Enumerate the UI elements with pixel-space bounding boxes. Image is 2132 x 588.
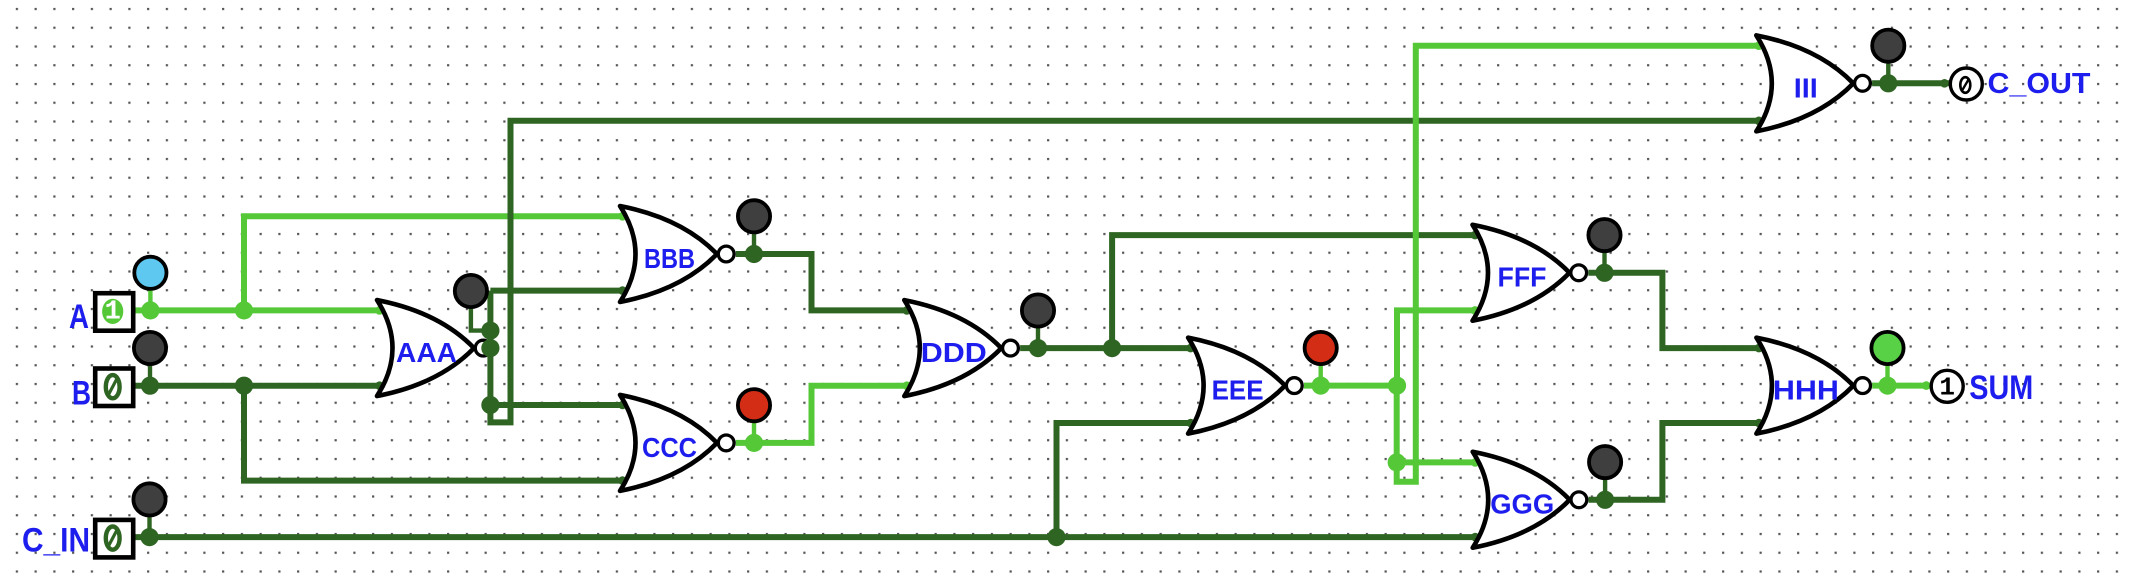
pin AAA input 1 bbox=[375, 306, 384, 315]
pin III input 1 bbox=[1755, 41, 1764, 50]
NOR gate AAA bbox=[377, 300, 474, 396]
NOR gate GGG bbox=[1473, 452, 1570, 548]
lamp BBB bbox=[738, 200, 770, 232]
pin DDD input 1 bbox=[903, 306, 912, 315]
node A branch junction bbox=[235, 301, 253, 319]
wire: A riser to BBB top input bbox=[244, 216, 626, 310]
pin BBB input 1 bbox=[618, 212, 627, 221]
node FFF output junction bbox=[1595, 264, 1613, 282]
wire: B lamp stub bbox=[148, 348, 152, 386]
NOR gate III bbox=[1756, 35, 1853, 131]
node BBB output junction bbox=[745, 245, 763, 263]
node EEE branch junction bbox=[1388, 377, 1406, 395]
wire: EEE output run bbox=[1304, 383, 1397, 389]
gate HHH output bubble bbox=[1855, 378, 1871, 394]
node III output junction bbox=[1879, 74, 1897, 92]
wire: AAA out to CCC top input bbox=[490, 402, 626, 408]
output node SUM circle bbox=[1931, 370, 1963, 402]
wire: AAA out to BBB bottom input bbox=[490, 288, 626, 294]
node EEE-GGG junction bbox=[1388, 453, 1406, 471]
wire: BBB lamp stub bbox=[752, 216, 756, 254]
svg-text:C_OUT: C_OUT bbox=[1988, 68, 2091, 100]
pin EEE input 2 bbox=[1186, 419, 1195, 428]
wire: III output to C_OUT node bbox=[1872, 80, 1949, 86]
output node C_OUT circle bbox=[1950, 68, 1982, 100]
pin HHH input 1 bbox=[1755, 344, 1764, 353]
gate GGG output bubble bbox=[1571, 492, 1587, 508]
svg-text:GGG: GGG bbox=[1490, 489, 1554, 520]
svg-text:SUM: SUM bbox=[1969, 369, 2033, 407]
NOR gate EEE bbox=[1188, 338, 1285, 434]
lamp AAA bbox=[455, 275, 487, 307]
pin EEE input 1 bbox=[1186, 344, 1195, 353]
pin GGG input 1 bbox=[1471, 458, 1480, 467]
svg-text:A: A bbox=[69, 298, 89, 336]
node DDD output junction bbox=[1029, 339, 1047, 357]
gate III output bubble bbox=[1855, 75, 1871, 91]
lamp on input B bbox=[134, 332, 166, 364]
wire: AAA output vertical bus bbox=[490, 121, 1762, 423]
lamp DDD bbox=[1022, 294, 1054, 326]
lamp HHH bbox=[1871, 332, 1903, 364]
lamp CCC bbox=[738, 389, 770, 421]
value badge 1 bbox=[102, 299, 123, 324]
wire: EEE out to GGG top input bbox=[1397, 459, 1479, 465]
wire: FFF output to HHH top input bbox=[1588, 273, 1762, 348]
pin A box output bbox=[128, 306, 137, 315]
node B pin junction bbox=[141, 377, 159, 395]
wire: HHH lamp stub bbox=[1885, 348, 1889, 386]
svg-text:1: 1 bbox=[1939, 372, 1955, 402]
input box C_IN bbox=[95, 520, 133, 558]
node AAA output junction bbox=[481, 339, 499, 357]
wire: CCC output to DDD bottom input bbox=[736, 386, 911, 443]
NOR gate CCC bbox=[620, 395, 717, 491]
pin HHH input 2 bbox=[1755, 419, 1764, 428]
wire: input B row bbox=[131, 383, 383, 389]
pin AAA input 2 bbox=[375, 381, 384, 390]
value badge 0 (slashed zero) bbox=[106, 375, 120, 398]
NOR gate HHH bbox=[1756, 338, 1853, 434]
NOR gate FFF bbox=[1473, 225, 1570, 321]
gate BBB output bubble bbox=[718, 246, 734, 262]
input box A bbox=[95, 293, 133, 331]
wire: CCC lamp stub bbox=[752, 405, 756, 443]
wire: HHH output to SUM node bbox=[1872, 383, 1930, 389]
lamp EEE bbox=[1305, 332, 1337, 364]
wire: EEE out down-bus to GGG and III bbox=[1397, 46, 1763, 482]
wire: GGG lamp stub bbox=[1603, 462, 1607, 500]
gate AAA output bubble bbox=[475, 340, 491, 356]
node DDD branch junction bbox=[1103, 339, 1121, 357]
gate FFF output bubble bbox=[1571, 265, 1587, 281]
node AAA lamp junction bbox=[481, 322, 499, 340]
lamp GGG bbox=[1589, 446, 1621, 478]
lamp FFF bbox=[1588, 219, 1620, 251]
node C_IN branch junction bbox=[1047, 528, 1065, 546]
svg-text:DDD: DDD bbox=[921, 337, 987, 368]
lamp on input A bbox=[134, 257, 166, 289]
pin III input 2 bbox=[1755, 117, 1764, 126]
svg-text:III: III bbox=[1794, 72, 1818, 103]
wire: GGG output to HHH bottom input bbox=[1589, 423, 1763, 500]
lamp III bbox=[1872, 30, 1904, 62]
pin DDD input 2 bbox=[903, 381, 912, 390]
wire: input A row bbox=[131, 307, 383, 313]
node CCC output junction bbox=[745, 434, 763, 452]
node GGG output junction bbox=[1596, 491, 1614, 509]
wire: III lamp stub bbox=[1886, 46, 1890, 84]
svg-text:FFF: FFF bbox=[1498, 262, 1547, 293]
C_OUT value 0 (slashed zero) bbox=[1960, 77, 1970, 93]
node AAA-CCC junction bbox=[481, 396, 499, 414]
wire: EEE out riser to FFF bottom input bbox=[1397, 310, 1479, 385]
node A pin junction bbox=[141, 301, 159, 319]
node EEE output junction bbox=[1312, 377, 1330, 395]
wire: C_IN riser to EEE bottom input bbox=[1057, 423, 1195, 537]
wire: BBB output to DDD top input bbox=[736, 254, 911, 310]
pin C_OUT node bbox=[1940, 79, 1949, 88]
value badge 0 (slashed zero) bbox=[106, 527, 120, 550]
NOR gate BBB bbox=[620, 206, 717, 302]
pin FFF input 2 bbox=[1471, 306, 1480, 315]
wire: AAA lamp stub bbox=[471, 293, 491, 331]
gate EEE output bubble bbox=[1286, 378, 1302, 394]
svg-text:HHH: HHH bbox=[1773, 375, 1839, 406]
wire: EEE lamp stub bbox=[1318, 348, 1322, 386]
svg-text:AAA: AAA bbox=[396, 337, 457, 368]
wire: DDD riser to FFF top input bbox=[1112, 235, 1478, 348]
node HHH output junction bbox=[1878, 377, 1896, 395]
svg-text:CCC: CCC bbox=[642, 432, 697, 463]
wire: C_IN lamp stub bbox=[147, 499, 151, 537]
pin B box output bbox=[128, 381, 137, 390]
svg-text:BBB: BBB bbox=[644, 243, 695, 274]
pin GGG input 2 bbox=[1471, 533, 1480, 542]
lamp on input C_IN bbox=[133, 483, 165, 515]
svg-text:1: 1 bbox=[105, 297, 121, 327]
input box B bbox=[95, 369, 133, 407]
pin CCC input 2 bbox=[618, 476, 627, 485]
wire: C_IN row to GGG bottom input bbox=[131, 534, 1479, 540]
wire: FFF lamp stub bbox=[1602, 235, 1606, 273]
svg-text:B: B bbox=[72, 374, 91, 412]
svg-text:C_IN: C_IN bbox=[22, 522, 90, 560]
node C_IN pin junction bbox=[140, 528, 158, 546]
pin SUM node bbox=[1922, 381, 1931, 390]
wire: DDD lamp stub bbox=[1036, 311, 1040, 349]
NOR gate DDD bbox=[904, 300, 1001, 396]
wire: DDD output to EEE top input bbox=[1020, 345, 1194, 351]
wire: B riser to CCC bottom input bbox=[244, 386, 626, 481]
svg-text:EEE: EEE bbox=[1212, 375, 1264, 406]
pin BBB input 2 bbox=[618, 286, 627, 295]
pin C_IN box output bbox=[128, 533, 137, 542]
gate CCC output bubble bbox=[718, 435, 734, 451]
pin CCC input 1 bbox=[618, 401, 627, 410]
pin FFF input 1 bbox=[1471, 231, 1480, 240]
node B branch junction bbox=[235, 377, 253, 395]
gate DDD output bubble bbox=[1003, 340, 1019, 356]
wire: A lamp stub bbox=[148, 273, 152, 311]
